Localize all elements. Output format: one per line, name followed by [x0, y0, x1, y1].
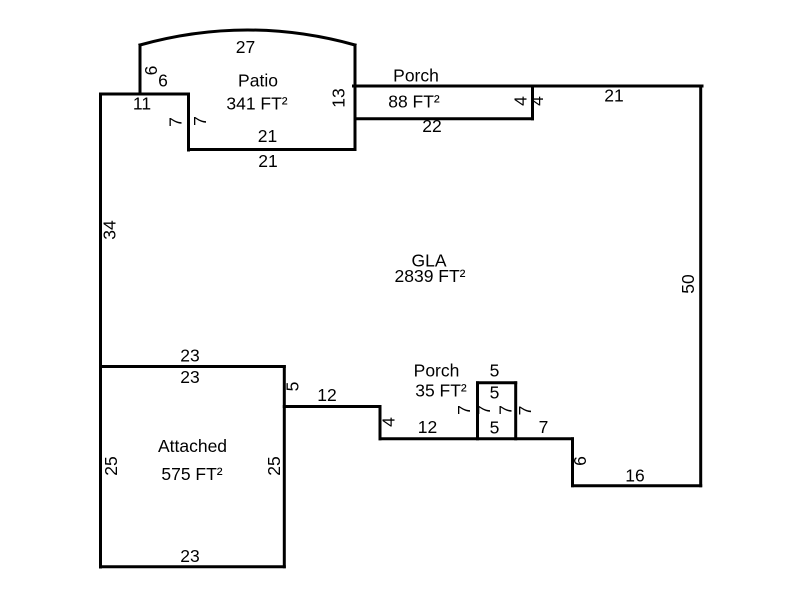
svg-text:12: 12 — [418, 417, 437, 437]
svg-text:7: 7 — [539, 417, 549, 437]
svg-text:Porch: Porch — [414, 361, 460, 381]
svg-text:7: 7 — [454, 405, 474, 415]
svg-text:2839 FT²: 2839 FT² — [395, 266, 466, 286]
svg-text:23: 23 — [180, 546, 199, 566]
svg-text:11: 11 — [133, 94, 151, 114]
svg-text:21: 21 — [604, 86, 623, 106]
svg-text:16: 16 — [625, 466, 644, 486]
svg-text:21: 21 — [258, 151, 277, 171]
svg-text:34: 34 — [100, 220, 120, 240]
svg-text:6: 6 — [141, 66, 161, 76]
svg-text:23: 23 — [180, 367, 199, 387]
svg-text:5: 5 — [490, 418, 500, 438]
svg-text:Attached: Attached — [158, 436, 227, 456]
svg-text:22: 22 — [422, 116, 441, 136]
svg-text:4: 4 — [527, 96, 547, 106]
svg-text:Porch: Porch — [393, 66, 439, 86]
svg-text:88 FT²: 88 FT² — [388, 92, 440, 112]
svg-text:7: 7 — [190, 116, 210, 126]
svg-text:5: 5 — [490, 383, 500, 403]
svg-text:7: 7 — [515, 406, 535, 416]
svg-text:35 FT²: 35 FT² — [415, 381, 467, 401]
svg-text:13: 13 — [329, 88, 349, 107]
svg-text:7: 7 — [496, 405, 516, 415]
svg-text:21: 21 — [258, 126, 277, 146]
svg-text:25: 25 — [101, 456, 121, 475]
svg-text:5: 5 — [283, 382, 303, 392]
svg-text:50: 50 — [678, 274, 698, 294]
svg-text:341 FT²: 341 FT² — [226, 94, 287, 114]
svg-text:4: 4 — [379, 417, 399, 427]
svg-text:25: 25 — [264, 456, 284, 475]
svg-text:27: 27 — [236, 37, 255, 57]
svg-text:Patio: Patio — [238, 71, 278, 91]
svg-text:6: 6 — [570, 456, 590, 466]
svg-text:7: 7 — [474, 405, 494, 415]
svg-text:23: 23 — [180, 346, 199, 366]
svg-text:575 FT²: 575 FT² — [161, 464, 222, 484]
svg-text:12: 12 — [317, 385, 336, 405]
svg-text:7: 7 — [166, 117, 186, 127]
svg-text:5: 5 — [490, 361, 500, 381]
